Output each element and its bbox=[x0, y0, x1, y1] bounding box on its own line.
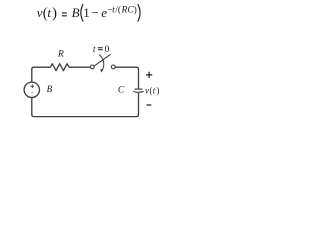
wire: circuit loop bbox=[32, 64, 139, 117]
svg-text:0: 0 bbox=[105, 45, 110, 55]
switch closing arc arrow bbox=[99, 55, 104, 72]
svg-text:e: e bbox=[101, 5, 107, 20]
label + (v(t) polarity) bbox=[146, 72, 152, 78]
svg-text:−: − bbox=[91, 5, 98, 20]
svg-text:): ) bbox=[52, 6, 57, 22]
label - (v(t) polarity) bbox=[147, 104, 152, 106]
svg-text:t: t bbox=[47, 5, 51, 20]
voltage source B bbox=[24, 82, 39, 97]
equation v(t) = B(1 - e^-t/(RC)) bbox=[37, 4, 140, 22]
svg-text:B: B bbox=[72, 5, 80, 20]
wire left vertical (top segment above source) bbox=[32, 67, 49, 82]
svg-text:t: t bbox=[153, 86, 156, 96]
switch left terminal bbox=[90, 65, 94, 69]
svg-text:R: R bbox=[57, 50, 64, 60]
switch SW (t=0) bbox=[90, 54, 115, 72]
svg-text:t: t bbox=[93, 45, 96, 55]
switch blade bbox=[94, 54, 110, 66]
label v(t) bbox=[145, 86, 159, 96]
svg-text:C: C bbox=[118, 85, 125, 95]
svg-text:B: B bbox=[47, 84, 53, 94]
svg-text:): ) bbox=[134, 4, 137, 15]
wire: capacitor bottom to bottom-right corner, bottom wire, up to source bbox=[32, 93, 139, 117]
wire: resistor to switch left terminal bbox=[71, 66, 90, 68]
wire: switch right terminal to top-right corner and down to capacitor bbox=[115, 67, 138, 89]
svg-text:1: 1 bbox=[83, 5, 90, 20]
switch right terminal bbox=[111, 65, 115, 69]
svg-text:/(: /( bbox=[115, 4, 121, 15]
svg-text:): ) bbox=[156, 86, 159, 96]
label t = 0 (switch) bbox=[93, 45, 110, 55]
capacitor C bbox=[133, 89, 144, 92]
resistor R zigzag body bbox=[49, 64, 72, 71]
svg-text:v: v bbox=[145, 86, 149, 96]
